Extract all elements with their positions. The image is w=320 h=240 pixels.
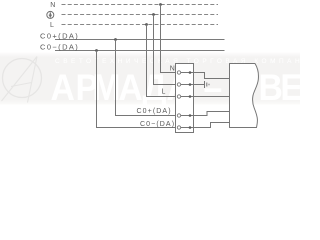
svg-text:N: N: [170, 65, 175, 72]
svg-text:L: L: [162, 89, 166, 96]
node: junction dot on bus L: [145, 23, 148, 26]
wire: drop from bus PE: [153, 15, 155, 85]
svg-text:C0+(DA): C0+(DA): [137, 108, 172, 115]
svg-text:C0−(DA): C0−(DA): [40, 42, 79, 51]
svg-text:А: А: [118, 66, 142, 108]
wire: drop from bus C0+: [115, 40, 117, 116]
PE earth symbol (circle): [47, 11, 54, 18]
terminal row 4 (C0+): [177, 114, 193, 117]
wire C0+ to terminal block: [115, 115, 178, 117]
bus N (dashed): [62, 4, 219, 6]
svg-text:N: N: [50, 2, 55, 9]
svg-text:–: –: [203, 66, 222, 108]
bus PE (dashed): [62, 14, 219, 16]
svg-text:А: А: [50, 66, 74, 108]
wire C0+ into luminaire: [194, 112, 230, 116]
node: junction dot on bus C0-: [95, 49, 98, 52]
watermark big text: [50, 66, 302, 108]
svg-text:C0+(DA): C0+(DA): [40, 31, 79, 40]
node: junction dot on bus N: [159, 3, 162, 6]
wire PE to terminal block: [153, 84, 178, 86]
bus L (dashed): [62, 24, 219, 26]
wire N into luminaire: [194, 73, 230, 79]
wire: drop from bus L: [146, 25, 148, 97]
wire C0- to terminal block: [96, 127, 178, 129]
wire C0- into luminaire: [194, 123, 230, 128]
terminal row 1 (N): [177, 71, 193, 74]
wire L into luminaire: [194, 96, 230, 98]
svg-text:C0−(DA): C0−(DA): [140, 121, 175, 128]
wire: drop from bus C0-: [96, 51, 98, 128]
wire PE to chassis earth: [194, 84, 205, 86]
watermark emblem: [2, 57, 42, 103]
luminaire body (with break line): [230, 64, 259, 128]
wire L to terminal block: [146, 96, 178, 98]
bus C0+ (solid): [55, 39, 225, 41]
svg-text:L: L: [50, 22, 54, 29]
node: junction dot on bus PE: [152, 13, 155, 16]
node: junction dot on bus C0+: [114, 38, 117, 41]
terminal block X1: [176, 64, 194, 133]
chassis earth symbol: [205, 81, 210, 88]
terminal row 2 (PE): [177, 83, 193, 86]
wire N to terminal block: [160, 72, 178, 74]
bus C0- (solid): [55, 50, 225, 52]
wire: drop from bus N: [160, 5, 162, 73]
svg-text:Е: Е: [280, 66, 300, 108]
terminal row 3 (L): [177, 95, 193, 98]
svg-text:В: В: [258, 66, 282, 108]
terminal row 5 (C0-): [177, 126, 193, 129]
